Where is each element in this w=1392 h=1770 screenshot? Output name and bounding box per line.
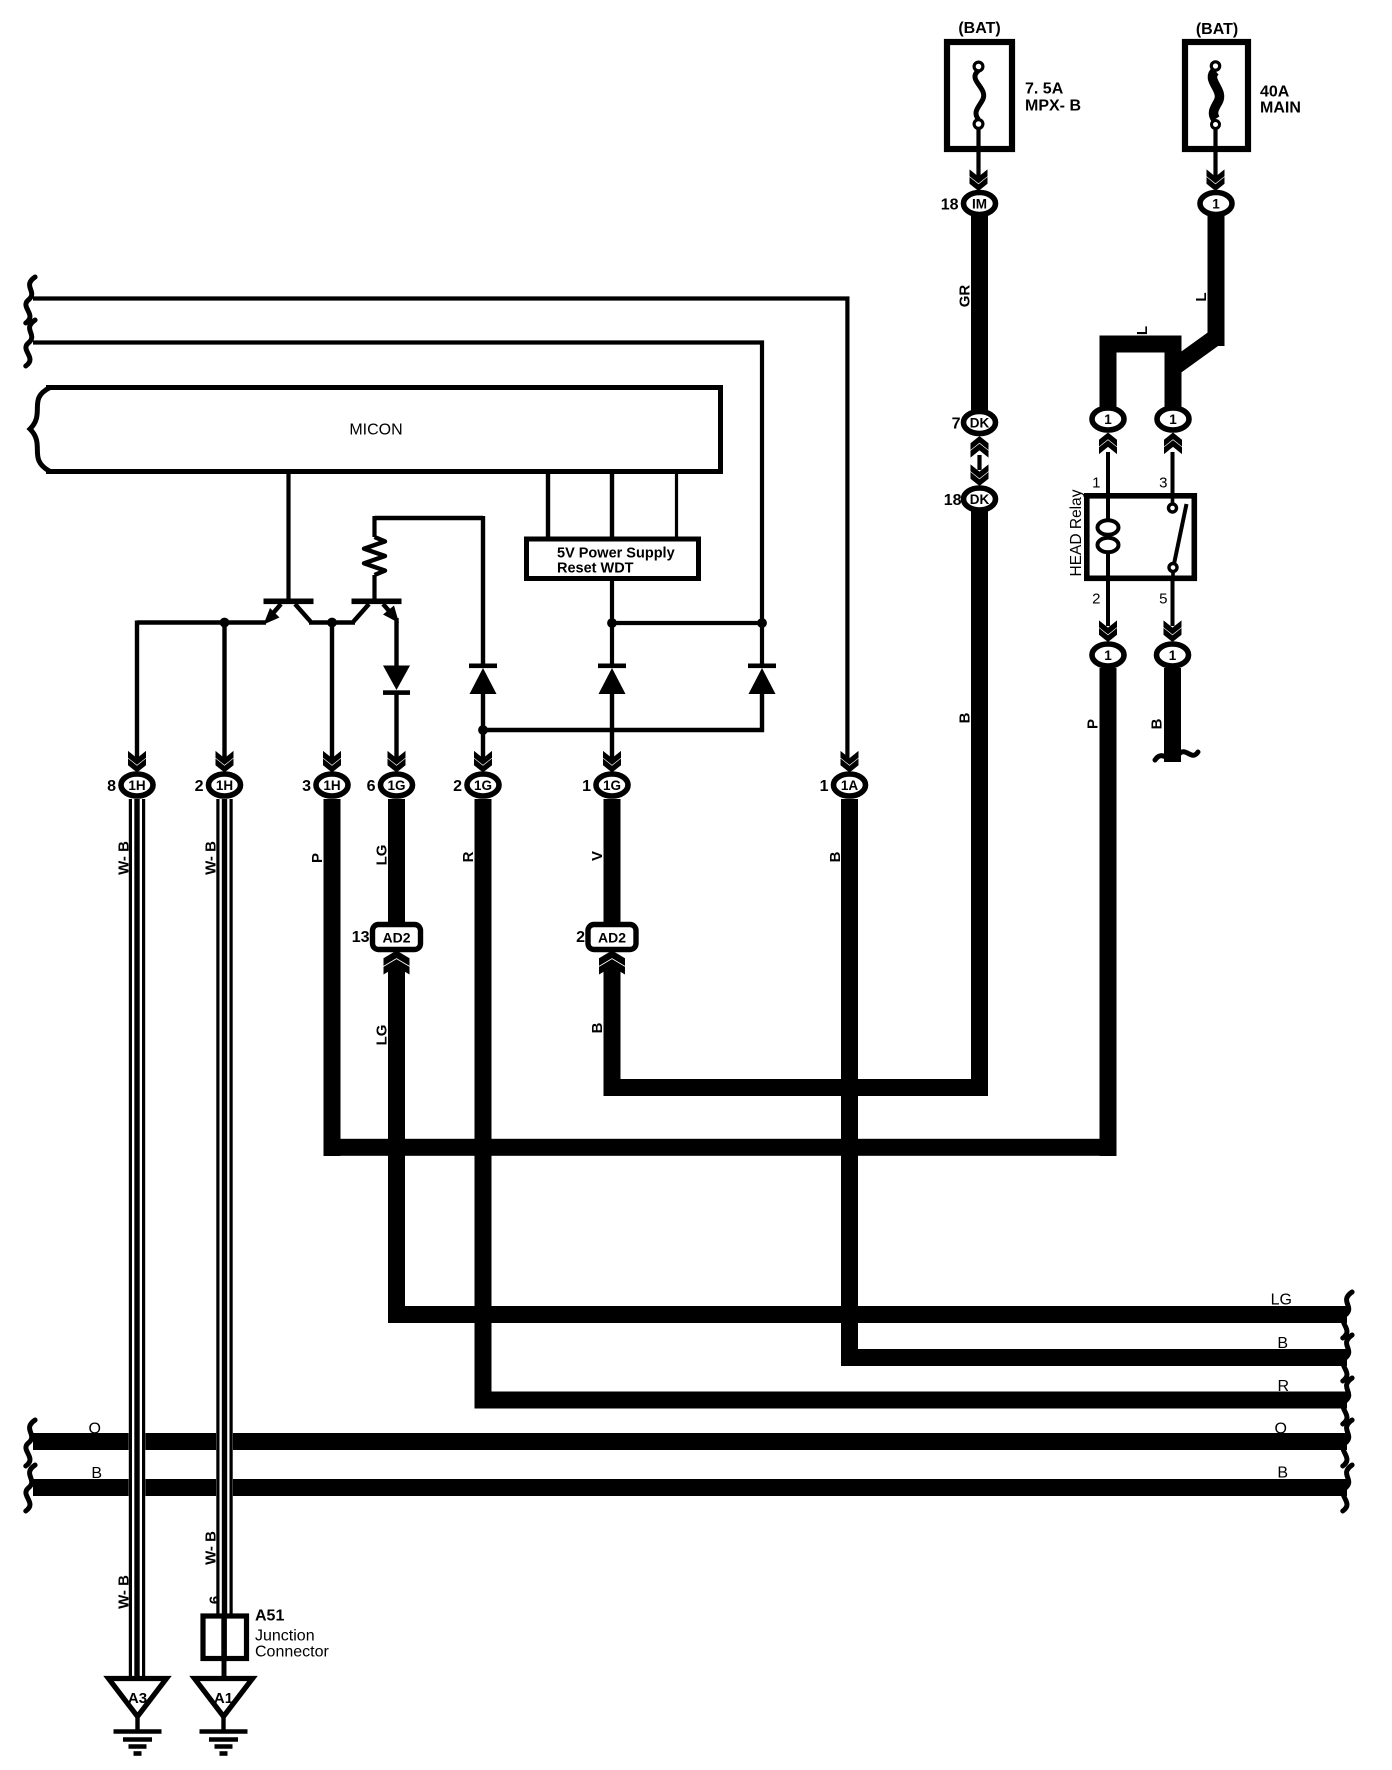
svg-text:L: L bbox=[1193, 292, 1210, 301]
svg-text:3: 3 bbox=[1159, 475, 1167, 492]
wire L left leg to relay pin1 connector bbox=[1100, 336, 1117, 408]
svg-text:V: V bbox=[589, 851, 606, 861]
svg-text:1: 1 bbox=[1169, 412, 1177, 427]
connector 1 1G bbox=[596, 774, 628, 796]
torn right end of bus LG bbox=[1343, 1292, 1352, 1338]
wire rail left segment bbox=[137, 620, 266, 624]
svg-text:8: 8 bbox=[107, 778, 116, 795]
svg-text:Reset WDT: Reset WDT bbox=[557, 561, 634, 577]
connector 2 AD2 bbox=[588, 925, 636, 950]
connector 1 at relay pin 3 bbox=[1157, 408, 1189, 430]
svg-text:1: 1 bbox=[1104, 412, 1112, 427]
svg-text:P: P bbox=[309, 853, 326, 863]
wire D4 to D2 branch link bbox=[483, 728, 764, 732]
svg-text:DK: DK bbox=[970, 492, 990, 507]
svg-text:Junction: Junction bbox=[255, 1628, 315, 1645]
svg-text:18: 18 bbox=[941, 197, 959, 214]
wire A51 to ground A1 bbox=[222, 1661, 227, 1680]
svg-text:LG: LG bbox=[374, 1025, 391, 1046]
wire L from fuse MAIN connector 1 bbox=[1208, 215, 1225, 346]
svg-text:2: 2 bbox=[453, 778, 462, 795]
torn edge of bus line 2 (left) bbox=[26, 320, 35, 366]
svg-text:L: L bbox=[1134, 326, 1151, 335]
connector 2 1H bbox=[209, 774, 241, 796]
svg-text:B: B bbox=[957, 712, 974, 723]
connector 1 at relay pin 5 bbox=[1157, 644, 1189, 666]
fuse 7.5A MPX-B bbox=[947, 42, 1012, 149]
relay switch bbox=[1169, 498, 1187, 576]
torn right end of bus O bbox=[1343, 1420, 1352, 1466]
wire down to connector 8 1H bbox=[135, 621, 139, 759]
wire Q2 collector to diode D1 bbox=[394, 618, 398, 667]
torn right end of bus B lower bbox=[1343, 1465, 1352, 1511]
svg-text:B: B bbox=[1149, 718, 1166, 729]
wire MICON to transistor Q1 base bbox=[286, 474, 290, 601]
svg-text:2: 2 bbox=[1092, 591, 1100, 608]
svg-text:W- B: W- B bbox=[203, 1531, 220, 1565]
connector 8 1H bbox=[121, 774, 153, 796]
arrow into connector 6 1G bbox=[388, 751, 406, 773]
svg-text:1H: 1H bbox=[216, 778, 233, 793]
svg-text:MICON: MICON bbox=[349, 422, 402, 439]
connector 6 1G bbox=[381, 774, 413, 796]
svg-text:R: R bbox=[1277, 1378, 1289, 1395]
connector 3 1H bbox=[316, 774, 348, 796]
wire fuse MAIN output bbox=[1213, 128, 1217, 178]
relay coil bbox=[1098, 498, 1119, 576]
wire fuse MPX-B output bbox=[976, 128, 980, 178]
wire L diagonal bend bbox=[1168, 330, 1221, 375]
arrow into connector 2 1G bbox=[474, 751, 492, 773]
arrow into connector 2 1H bbox=[216, 751, 234, 773]
svg-text:18: 18 bbox=[944, 492, 962, 509]
connector 18 IM bbox=[964, 193, 996, 215]
wire B from connector 1A down bbox=[841, 799, 858, 1366]
diode D3 bbox=[598, 664, 626, 695]
svg-text:IM: IM bbox=[972, 196, 987, 211]
svg-text:1G: 1G bbox=[387, 778, 405, 793]
wire MICON to 5V box pin 3 bbox=[675, 474, 678, 540]
wire LG from AD2 pin13 down bbox=[388, 966, 405, 1323]
arrow into connector at relay pin 5 bbox=[1164, 620, 1182, 642]
svg-text:1H: 1H bbox=[128, 778, 145, 793]
svg-text:LG: LG bbox=[1271, 1292, 1292, 1309]
svg-text:3: 3 bbox=[302, 778, 311, 795]
wire bus LG bbox=[388, 1306, 1347, 1323]
arrow into connector 3 1H bbox=[323, 751, 341, 773]
arrow into connector 18 IM bbox=[970, 169, 988, 191]
node junction to 2 1H bbox=[220, 618, 230, 628]
svg-text:13: 13 bbox=[352, 929, 370, 946]
fuse 40A MAIN bbox=[1185, 42, 1248, 149]
arrow below connector at relay pin 3 bbox=[1164, 433, 1182, 455]
wire V from connector 1 1G to AD2 pin2 bbox=[604, 799, 621, 926]
wire connector to relay pin 1 bbox=[1106, 452, 1110, 497]
wire down to diode D2 bbox=[481, 516, 485, 664]
connector 7 DK bbox=[964, 412, 996, 434]
svg-text:B: B bbox=[827, 851, 844, 862]
transistor Q1 bbox=[264, 599, 314, 625]
svg-text:1A: 1A bbox=[841, 778, 859, 793]
svg-text:1: 1 bbox=[1169, 648, 1177, 663]
svg-text:O: O bbox=[89, 1421, 101, 1438]
torn end of relay B wire bbox=[1155, 752, 1198, 760]
svg-text:1H: 1H bbox=[323, 778, 340, 793]
svg-text:7. 5A: 7. 5A bbox=[1025, 81, 1064, 98]
svg-text:P: P bbox=[1085, 719, 1102, 729]
wire connector to relay pin 3 bbox=[1171, 452, 1175, 497]
arrow into connector at relay pin 2 bbox=[1099, 620, 1117, 642]
wire D3 to connector 1 1G bbox=[610, 694, 614, 759]
connector 1 at relay pin 2 bbox=[1092, 644, 1124, 666]
svg-text:AD2: AD2 bbox=[598, 930, 626, 946]
wire 5V box to diode D3 bbox=[610, 581, 614, 664]
wire resistor top lead bbox=[372, 516, 376, 537]
svg-text:MPX- B: MPX- B bbox=[1025, 98, 1081, 115]
wire W-B from connector 2 1H to junction connector A51 bbox=[216, 799, 233, 1614]
arrow into connector 1 of MAIN feed bbox=[1207, 169, 1225, 191]
wire bus O full width bbox=[33, 1433, 1347, 1450]
svg-text:DK: DK bbox=[970, 415, 990, 430]
transistor Q2 bbox=[352, 599, 402, 624]
svg-text:5V Power Supply: 5V Power Supply bbox=[557, 546, 675, 562]
connector 13 AD2 bbox=[373, 925, 421, 950]
wire bus B lower full width bbox=[33, 1479, 1347, 1496]
svg-text:1: 1 bbox=[1092, 475, 1100, 492]
connector 1 at relay pin 1 bbox=[1092, 408, 1124, 430]
torn left end of bus O bbox=[26, 1420, 35, 1466]
wire bus line 2 from page-left down to diode D4 bbox=[33, 343, 762, 622]
svg-text:B: B bbox=[589, 1022, 606, 1033]
wire bus B upper bbox=[842, 1349, 1348, 1366]
svg-text:HEAD Relay: HEAD Relay bbox=[1068, 489, 1085, 576]
node junction at D3 bbox=[607, 618, 617, 628]
wire between 7 DK and 18 DK bbox=[977, 455, 981, 470]
svg-text:7: 7 bbox=[952, 416, 961, 433]
wire relay pin 5 to connector bbox=[1171, 578, 1175, 626]
wire node between D3 and D4 branches bbox=[612, 621, 762, 625]
svg-text:6: 6 bbox=[367, 778, 376, 795]
svg-text:1: 1 bbox=[582, 778, 591, 795]
connector 1 1A bbox=[834, 774, 866, 796]
svg-text:B: B bbox=[1277, 1465, 1288, 1482]
svg-text:1: 1 bbox=[820, 778, 829, 795]
wire P up to head relay pin 2 connector bbox=[1100, 668, 1117, 1156]
torn left end of bus B lower bbox=[26, 1465, 35, 1511]
wire R from connector 2 1G down bbox=[475, 799, 492, 1409]
svg-text:MAIN: MAIN bbox=[1260, 100, 1301, 117]
svg-text:W- B: W- B bbox=[203, 841, 220, 875]
torn edge of bus line 1 (left) bbox=[26, 277, 35, 323]
connector 2 1G bbox=[467, 774, 499, 796]
wire L right leg to relay pin3 connector bbox=[1165, 344, 1182, 407]
svg-text:Connector: Connector bbox=[255, 1644, 329, 1661]
svg-text:1: 1 bbox=[1212, 196, 1220, 211]
svg-text:B: B bbox=[1277, 1335, 1288, 1352]
svg-text:2: 2 bbox=[576, 929, 585, 946]
svg-text:W- B: W- B bbox=[116, 1575, 133, 1609]
MICON block outline bbox=[46, 388, 721, 472]
5V Power Supply Reset WDT block bbox=[527, 539, 699, 579]
node junction to 3 1H bbox=[327, 618, 337, 628]
svg-text:A3: A3 bbox=[128, 1690, 147, 1707]
arrow below connector at relay pin 1 bbox=[1099, 433, 1117, 455]
diode D2 bbox=[469, 664, 497, 695]
arrow into connector 18 DK bbox=[971, 464, 989, 486]
wire LG from connector 6 1G to AD2 pin13 bbox=[388, 799, 405, 926]
svg-text:A1: A1 bbox=[214, 1690, 233, 1707]
wire W-B from connector 8 1H to ground A3 bbox=[129, 799, 146, 1679]
relay HEAD Relay bbox=[1087, 496, 1195, 579]
resistor R1 bbox=[364, 537, 385, 575]
wire down to connector 2 1H bbox=[222, 623, 226, 759]
wire B from relay pin 5 connector down bbox=[1164, 668, 1181, 762]
MICON torn left edge bbox=[30, 388, 50, 472]
ground A1 bbox=[195, 1679, 253, 1754]
wire P from connector 3 1H down bbox=[324, 799, 341, 1156]
junction connector A51 bbox=[203, 1614, 247, 1662]
arrow into AD2 pin 13 bbox=[384, 951, 410, 975]
svg-text:1G: 1G bbox=[603, 778, 621, 793]
diode D1 bbox=[383, 666, 410, 695]
arrow into connector 8 1H bbox=[128, 751, 146, 773]
wire P horizontal run bbox=[324, 1139, 1117, 1156]
wire D2 to connector 2 1G bbox=[481, 694, 485, 759]
svg-text:W- B: W- B bbox=[116, 841, 133, 875]
svg-text:R: R bbox=[460, 851, 477, 862]
svg-text:1: 1 bbox=[1104, 648, 1112, 663]
ground A3 bbox=[109, 1679, 167, 1754]
svg-text:GR: GR bbox=[957, 285, 974, 308]
wire relay pin 2 to connector bbox=[1106, 578, 1110, 626]
arrow out of connector 7 DK bbox=[971, 436, 989, 458]
wire D1 to connector 6 1G bbox=[394, 695, 398, 759]
torn right end of bus B upper bbox=[1343, 1335, 1352, 1381]
svg-text:AD2: AD2 bbox=[382, 930, 410, 946]
svg-text:1G: 1G bbox=[474, 778, 492, 793]
wire GR fuse MPX-B to connector 7 DK bbox=[971, 215, 988, 411]
diode D4 bbox=[748, 664, 776, 695]
svg-text:5: 5 bbox=[1159, 591, 1167, 608]
svg-text:2: 2 bbox=[195, 778, 204, 795]
svg-text:A51: A51 bbox=[255, 1608, 284, 1625]
wire rail middle segment bbox=[309, 620, 355, 624]
wire resistor top to D2 branch bbox=[375, 516, 484, 520]
svg-text:LG: LG bbox=[374, 845, 391, 866]
wire B from connector 18 DK down bbox=[971, 511, 988, 1096]
wire L branch horizontal bbox=[1100, 336, 1182, 353]
arrow into AD2 pin 2 bbox=[599, 951, 625, 975]
torn right end of bus R bbox=[1343, 1378, 1352, 1424]
node junction D2/D4 link bbox=[478, 725, 488, 735]
svg-text:B: B bbox=[91, 1465, 102, 1482]
wire down to connector 3 1H bbox=[330, 623, 334, 759]
node junction at D4 bbox=[757, 618, 767, 628]
svg-text:O: O bbox=[1275, 1421, 1287, 1438]
arrow into connector 1 1G bbox=[603, 751, 621, 773]
wire MICON to 5V box pin 2 bbox=[610, 474, 614, 540]
wire bus line 1 from MICON page-left to connector 1A bbox=[33, 299, 847, 759]
svg-text:40A: 40A bbox=[1260, 84, 1290, 101]
wire bus2 down to diode D4 bbox=[760, 621, 764, 664]
wire bus R bbox=[475, 1392, 1348, 1409]
svg-text:(BAT): (BAT) bbox=[1196, 21, 1238, 38]
wire resistor bottom to transistor Q2 base bbox=[372, 575, 376, 600]
wire B horizontal run to MPX-B feed bbox=[604, 1079, 989, 1096]
connector 18 DK bbox=[964, 488, 996, 510]
connector 1 of MAIN feed bbox=[1200, 193, 1232, 215]
wire B from AD2 pin2 down bbox=[604, 966, 621, 1096]
arrow into connector 1 1A bbox=[841, 751, 859, 773]
svg-text:(BAT): (BAT) bbox=[958, 20, 1000, 37]
svg-text:6: 6 bbox=[207, 1596, 224, 1604]
wire MICON to 5V box pin 1 bbox=[546, 474, 550, 540]
wire D4 down leg bbox=[760, 694, 764, 733]
